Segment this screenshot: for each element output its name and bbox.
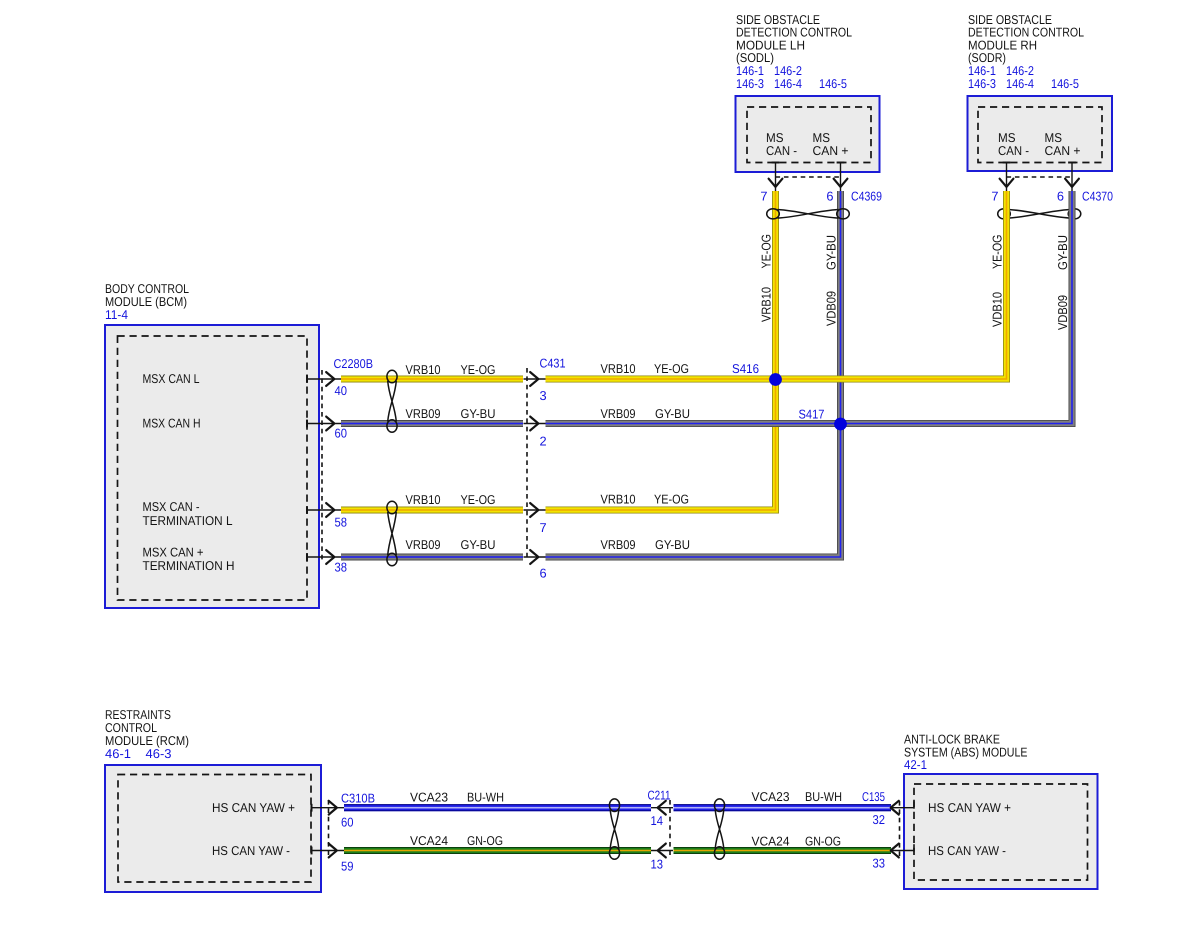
splice S416	[769, 373, 782, 386]
svg-text:C135: C135	[862, 789, 885, 804]
svg-text:GY-BU: GY-BU	[461, 537, 496, 552]
module SODR title	[968, 12, 1084, 91]
twisted pair symbol (right of C211)	[714, 799, 724, 859]
svg-text:11-4: 11-4	[105, 307, 128, 322]
svg-text:BU-WH: BU-WH	[805, 789, 842, 804]
svg-text:GY-BU: GY-BU	[824, 235, 839, 270]
svg-text:VDB09: VDB09	[1055, 295, 1070, 330]
wire VRB10 YE-OG (C431 7 to SODL pin7 via S416)	[546, 191, 776, 510]
BCM pin 60 lead	[307, 417, 341, 431]
svg-text:146-5: 146-5	[819, 76, 847, 91]
svg-text:146-4: 146-4	[1006, 76, 1034, 91]
C431 arrow at y=379	[524, 372, 546, 386]
svg-text:VCA24: VCA24	[410, 833, 448, 848]
wire VRB10 YE-OG (BCM 40 to C431 3)	[341, 376, 523, 383]
svg-text:146-5: 146-5	[1051, 76, 1079, 91]
connector C135 dashed line	[899, 801, 901, 856]
svg-text:C211: C211	[648, 788, 671, 803]
twisted pair symbol (BCM 58/38)	[387, 501, 397, 566]
pin label MS CAN +	[813, 130, 849, 158]
connector C431 dashed line	[526, 368, 528, 559]
svg-text:CAN -: CAN -	[998, 143, 1029, 158]
svg-text:C310B: C310B	[341, 791, 375, 806]
svg-text:GY-BU: GY-BU	[461, 406, 496, 421]
svg-text:CAN +: CAN +	[1045, 143, 1081, 158]
svg-text:146-4: 146-4	[774, 76, 802, 91]
svg-text:3: 3	[540, 388, 547, 403]
C431 arrow at y=423.5	[524, 417, 546, 431]
svg-text:GN-OG: GN-OG	[467, 833, 503, 848]
twisted pair symbol (BCM 40/60)	[387, 370, 397, 432]
module BCM box	[105, 325, 319, 608]
svg-text:6: 6	[540, 566, 547, 581]
svg-text:MSX CAN H: MSX CAN H	[143, 416, 201, 431]
svg-text:VRB10: VRB10	[601, 361, 636, 376]
wire VRB10 YE-OG (C431 3 to SODR pin7 via S416)	[546, 191, 1007, 379]
wire VCA24 GN-OG (C211 13 to C135 33)	[674, 847, 892, 854]
svg-text:146-3: 146-3	[968, 76, 996, 91]
svg-text:14: 14	[651, 813, 664, 828]
C431 arrow at y=557	[524, 550, 546, 564]
svg-text:C2280B: C2280B	[334, 356, 374, 371]
svg-text:YE-OG: YE-OG	[759, 234, 774, 269]
wire VRB10 YE-OG (BCM 58 to C431 7)	[341, 507, 523, 514]
SODL pin 6 lead	[834, 163, 848, 192]
svg-text:VDB10: VDB10	[990, 292, 1005, 327]
twisted pair symbol (left of C211)	[609, 799, 619, 859]
svg-text:GN-OG: GN-OG	[805, 834, 841, 849]
wire VRB09 GY-BU (C431 6 to SODL pin6 via S417)	[546, 191, 841, 557]
svg-text:7: 7	[760, 189, 767, 204]
svg-text:32: 32	[873, 812, 886, 827]
svg-text:58: 58	[335, 515, 348, 530]
svg-text:7: 7	[991, 189, 998, 204]
svg-text:13: 13	[651, 857, 664, 872]
svg-text:146-3: 146-3	[736, 76, 764, 91]
svg-text:C4370: C4370	[1082, 189, 1113, 204]
svg-text:C4369: C4369	[851, 189, 882, 204]
svg-text:GY-BU: GY-BU	[655, 537, 690, 552]
svg-text:VRB09: VRB09	[601, 406, 636, 421]
wire VRB09 GY-BU (C431 2 to SODR pin6 via S417)	[546, 191, 1073, 424]
svg-text:VRB09: VRB09	[406, 537, 441, 552]
svg-text:MSX CAN -: MSX CAN -	[143, 499, 200, 514]
svg-text:VRB10: VRB10	[406, 492, 441, 507]
svg-text:CAN -: CAN -	[766, 143, 797, 158]
module SODR box	[968, 96, 1113, 171]
svg-text:HS CAN YAW -: HS CAN YAW -	[212, 843, 290, 858]
svg-text:HS CAN YAW +: HS CAN YAW +	[928, 800, 1011, 815]
SODL pin 7 lead	[769, 163, 783, 192]
C431 arrow at y=510	[524, 503, 546, 517]
svg-text:6: 6	[826, 189, 833, 204]
module RCM title	[105, 707, 189, 761]
svg-text:YE-OG: YE-OG	[461, 492, 496, 507]
module ABS box	[904, 774, 1098, 889]
pin label MS CAN +	[1045, 130, 1081, 158]
twisted pair symbol (C4370)	[998, 209, 1081, 219]
svg-text:VRB09: VRB09	[601, 537, 636, 552]
svg-text:6: 6	[1057, 189, 1064, 204]
pin label MS CAN -	[766, 130, 797, 158]
RCM pin 59 lead	[312, 844, 346, 858]
C211 arrow at y=807.7	[651, 801, 673, 815]
connector C4369 dashed line	[776, 176, 841, 178]
svg-text:VDB09: VDB09	[824, 291, 839, 326]
connector C211 dashed line	[669, 800, 671, 856]
svg-text:42-1: 42-1	[904, 757, 927, 772]
svg-text:60: 60	[341, 815, 354, 830]
wire VCA23 BU-WH (C211 14 to C135 32)	[674, 804, 892, 811]
svg-text:YE-OG: YE-OG	[990, 235, 1005, 270]
svg-text:38: 38	[335, 560, 348, 575]
BCM pin 38 lead	[307, 550, 341, 564]
twisted pair symbol (C4369)	[767, 209, 850, 219]
svg-text:MSX CAN L: MSX CAN L	[143, 371, 200, 386]
svg-text:VCA23: VCA23	[752, 789, 790, 804]
svg-text:VCA23: VCA23	[410, 790, 448, 805]
svg-text:YE-OG: YE-OG	[654, 492, 689, 507]
module SODL title	[736, 12, 852, 91]
SODR pin 6 lead	[1065, 163, 1079, 192]
module BCM title	[105, 281, 189, 322]
C135 arrow / ABS pin lead at y=807.7	[891, 801, 914, 815]
svg-text:33: 33	[873, 856, 886, 871]
module ABS title	[904, 732, 1028, 773]
svg-text:46-3: 46-3	[146, 746, 172, 761]
svg-text:TERMINATION L: TERMINATION L	[143, 513, 233, 528]
svg-text:CAN +: CAN +	[813, 143, 849, 158]
svg-text:VRB09: VRB09	[406, 406, 441, 421]
module SODL box	[736, 96, 880, 172]
svg-text:TERMINATION H: TERMINATION H	[143, 558, 235, 573]
svg-text:YE-OG: YE-OG	[461, 362, 496, 377]
connector C4370 dashed line	[1007, 176, 1073, 178]
svg-text:S416: S416	[732, 361, 759, 376]
pin label MS CAN -	[998, 130, 1029, 158]
BCM pin label MSX CAN - TERMINATION L	[143, 499, 233, 528]
connector C310B dashed line	[328, 800, 330, 856]
C211 arrow at y=850.5	[651, 844, 673, 858]
svg-text:GY-BU: GY-BU	[655, 406, 690, 421]
wire VRB09 GY-BU (BCM 60 to C431 2)	[341, 420, 523, 427]
svg-text:VCA24: VCA24	[752, 834, 790, 849]
svg-text:46-1: 46-1	[105, 746, 131, 761]
SODR pin 7 lead	[1000, 163, 1014, 192]
RCM pin 60 lead	[312, 801, 346, 815]
module RCM box	[105, 765, 321, 892]
svg-text:59: 59	[341, 859, 354, 874]
svg-text:YE-OG: YE-OG	[654, 361, 689, 376]
svg-text:HS CAN YAW +: HS CAN YAW +	[212, 800, 295, 815]
svg-text:GY-BU: GY-BU	[1055, 235, 1070, 270]
svg-text:S417: S417	[799, 407, 825, 422]
svg-text:VRB10: VRB10	[601, 492, 636, 507]
wire VCA23 BU-WH (RCM 60 to C211 14)	[344, 804, 651, 811]
svg-text:C431: C431	[540, 356, 566, 371]
BCM pin 40 lead	[307, 372, 341, 386]
svg-text:VRB10: VRB10	[406, 362, 441, 377]
BCM pin 58 lead	[307, 503, 341, 517]
svg-text:7: 7	[540, 520, 547, 535]
svg-text:40: 40	[335, 383, 348, 398]
svg-text:2: 2	[540, 434, 547, 449]
connector C2280B dashed line	[321, 370, 323, 561]
C135 arrow / ABS pin lead at y=850.5	[891, 844, 914, 858]
wire VRB09 GY-BU (BCM 38 to C431 6)	[341, 554, 523, 561]
svg-text:HS CAN YAW -: HS CAN YAW -	[928, 843, 1006, 858]
svg-text:BU-WH: BU-WH	[467, 790, 504, 805]
wire VCA24 GN-OG (RCM 59 to C211 13)	[344, 847, 651, 854]
splice S417	[834, 418, 847, 431]
svg-text:VRB10: VRB10	[759, 287, 774, 322]
BCM pin label MSX CAN + TERMINATION H	[143, 545, 235, 574]
svg-text:60: 60	[335, 426, 348, 441]
